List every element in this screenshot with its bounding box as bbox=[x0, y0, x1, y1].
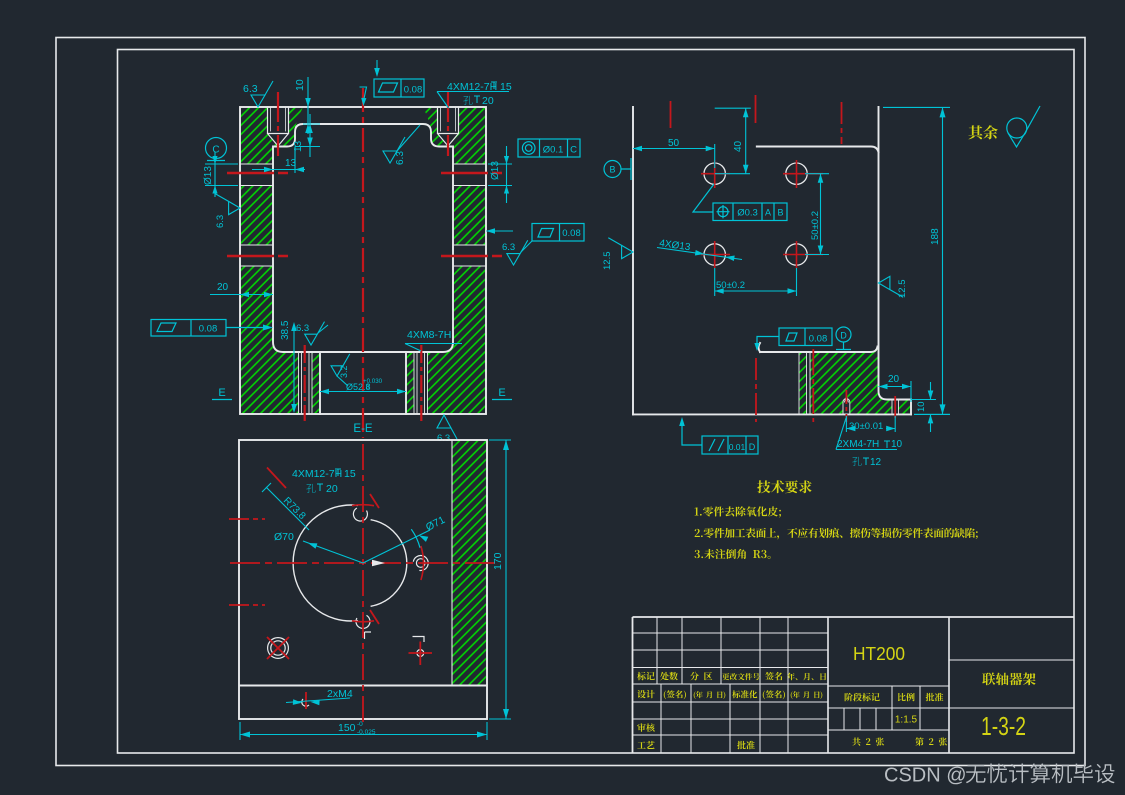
dim phi52.8 bbox=[320, 391, 406, 393]
bottom view wall line bbox=[451, 440, 453, 686]
left table verticals rows1-4 bbox=[657, 617, 788, 684]
tb qianming bbox=[765, 672, 782, 681]
svg-text:40: 40 bbox=[733, 140, 744, 152]
tech req line3 bbox=[694, 549, 770, 559]
bottom view hatch strip bbox=[452, 440, 487, 686]
label hole depth 20 bbox=[463, 96, 472, 105]
tb chushu bbox=[660, 672, 678, 681]
svg-text:50±0.2: 50±0.2 bbox=[716, 280, 745, 291]
small hole cross bbox=[409, 642, 433, 666]
right view base top edge y=352 bbox=[759, 343, 878, 352]
E-E left leg+base hatch bbox=[240, 266, 320, 414]
small hole bottom-right bbox=[417, 650, 424, 657]
svg-text:30±0.01: 30±0.01 bbox=[849, 421, 883, 432]
svg-text:C: C bbox=[212, 145, 219, 156]
svg-text:D: D bbox=[749, 442, 756, 452]
bottom view vertical centerline bbox=[362, 444, 364, 727]
right view step line y=146.5 bbox=[757, 147, 879, 153]
E-E right leg+base hatch bbox=[406, 266, 486, 414]
finish 6.3 top-left bbox=[251, 81, 273, 107]
datum B bbox=[604, 158, 631, 180]
svg-text:HT200: HT200 bbox=[853, 643, 905, 664]
tech req line2 bbox=[695, 528, 978, 540]
dim 10 right step height bbox=[911, 382, 950, 432]
right view bottom edge bbox=[633, 413, 911, 415]
svg-text:6.3: 6.3 bbox=[243, 83, 258, 95]
tb gong2zhang bbox=[852, 737, 884, 745]
svg-text:6.3: 6.3 bbox=[502, 242, 515, 253]
svg-text:2XM4-7H: 2XM4-7H bbox=[837, 439, 879, 450]
left table horizontals bbox=[633, 633, 829, 735]
svg-text:15: 15 bbox=[344, 468, 356, 480]
tb part name 联轴器架 bbox=[982, 673, 1035, 686]
tb di2zhang bbox=[915, 737, 947, 745]
margin tick centerlines bbox=[229, 519, 265, 605]
bottom view horizontal centerline bbox=[230, 562, 496, 564]
M12 top hole diagonal tick bbox=[370, 494, 379, 508]
M4 flange hole tick bbox=[305, 692, 307, 709]
finish 12.5 left bbox=[608, 238, 633, 259]
svg-text:B: B bbox=[777, 208, 783, 218]
svg-text:12.5: 12.5 bbox=[602, 252, 613, 271]
tb jieduanbiaoji bbox=[845, 693, 880, 701]
svg-text:0.08: 0.08 bbox=[199, 324, 218, 335]
tb sheji bbox=[637, 690, 655, 698]
finish 6.3 left leg bbox=[215, 194, 240, 215]
leader arrow to top face bbox=[376, 60, 378, 68]
datum C bbox=[206, 138, 227, 161]
right view section detail lines bbox=[799, 352, 899, 414]
svg-text:12.5: 12.5 bbox=[897, 280, 908, 299]
tb genggai bbox=[722, 673, 759, 680]
svg-text:6.3: 6.3 bbox=[395, 151, 406, 165]
leader box to surface bbox=[360, 87, 367, 100]
leader bbox=[437, 92, 509, 109]
corner bracket center-bottom bbox=[365, 632, 372, 639]
dim 50±0.2 vertical bbox=[805, 174, 829, 255]
dim 30±0.01 bbox=[846, 416, 895, 432]
right view top centerline segments bbox=[670, 101, 672, 128]
right view 4 holes phi13 bbox=[704, 163, 807, 265]
svg-text:0.08: 0.08 bbox=[809, 334, 828, 345]
tb pizhun row8 bbox=[737, 741, 755, 750]
tolerance box concentricity phi0.1 C bbox=[518, 139, 580, 157]
tb qianming2 bbox=[664, 690, 686, 699]
svg-text:170: 170 bbox=[492, 552, 504, 570]
svg-text:20: 20 bbox=[482, 95, 494, 107]
svg-text:Ø0.1: Ø0.1 bbox=[543, 145, 564, 156]
tb shenhe bbox=[637, 723, 655, 732]
E-E phi13 centerlines bbox=[227, 172, 503, 175]
right section lines bbox=[949, 660, 1074, 708]
right view section hatch bbox=[799, 344, 911, 414]
svg-text:-0: -0 bbox=[357, 721, 363, 728]
right view hole centerlines bbox=[701, 174, 823, 255]
svg-text:13: 13 bbox=[285, 158, 297, 169]
svg-text:13: 13 bbox=[293, 140, 304, 152]
title block grid bbox=[633, 617, 1075, 753]
svg-text:4XM8-7H: 4XM8-7H bbox=[407, 329, 451, 341]
svg-text:Ø13: Ø13 bbox=[203, 166, 214, 185]
svg-text:0.01: 0.01 bbox=[729, 442, 746, 452]
svg-text:D: D bbox=[840, 331, 847, 341]
dim 20 leg bbox=[210, 294, 273, 296]
finish 6.3 right leg bbox=[486, 231, 532, 253]
M4 hole bottom-left: double circle bbox=[271, 641, 285, 655]
middle section lines bbox=[828, 686, 949, 730]
dim 188 bbox=[883, 107, 950, 414]
M4 hole X bbox=[267, 637, 289, 659]
svg-text:0: 0 bbox=[366, 384, 370, 391]
tb biaoji bbox=[637, 672, 655, 680]
finish 12.5 right bbox=[879, 276, 904, 297]
tolerance box parallel 0.01 D bbox=[682, 420, 758, 454]
E-E left counterbore bbox=[268, 107, 289, 146]
tolerance box parallelism 0.08 top bbox=[374, 79, 424, 97]
svg-text:1:1.5: 1:1.5 bbox=[895, 715, 918, 726]
svg-text:Ø0.3: Ø0.3 bbox=[737, 208, 758, 219]
E-E M8 centerlines bbox=[305, 345, 422, 421]
svg-text:6.3: 6.3 bbox=[296, 323, 309, 334]
svg-text:A: A bbox=[765, 208, 771, 218]
right view bottom centerlines bbox=[755, 358, 757, 422]
M12 hole arc top bbox=[353, 508, 367, 521]
dim 50±0.2 horizontal bbox=[715, 268, 797, 296]
finish 3.2 bore bbox=[331, 354, 350, 376]
tolerance box parallelism 0.08 right bbox=[532, 224, 584, 242]
tb qianming3 bbox=[763, 690, 785, 699]
dim 38.5 bbox=[293, 325, 295, 411]
tb gongyi bbox=[637, 741, 654, 749]
svg-text:6.3: 6.3 bbox=[437, 433, 450, 444]
tb pizhun bbox=[926, 693, 944, 702]
svg-text:E-E: E-E bbox=[353, 423, 373, 435]
svg-text:50: 50 bbox=[668, 138, 680, 149]
M12 hole arc bottom bbox=[356, 615, 370, 628]
svg-text:3.2: 3.2 bbox=[339, 365, 349, 378]
E-E left leg hatch bbox=[240, 186, 273, 246]
leader tick 4XM12 bbox=[267, 468, 286, 489]
tiny arc on flange M4 bbox=[302, 699, 309, 706]
svg-text:188: 188 bbox=[930, 228, 941, 245]
tb nianyueri bbox=[787, 673, 826, 681]
E-E M8 holes thread lines bbox=[299, 352, 313, 414]
tb biaozhunhua bbox=[732, 690, 757, 698]
svg-text:4XM12-7H: 4XM12-7H bbox=[292, 468, 342, 480]
right view left edge bbox=[632, 107, 634, 414]
svg-text:6.3: 6.3 bbox=[215, 215, 226, 228]
dim 13 vertical bbox=[295, 114, 320, 157]
svg-text:38.5: 38.5 bbox=[280, 320, 291, 340]
bottom view flange line bbox=[239, 685, 487, 687]
dim R73.8 bbox=[262, 483, 309, 530]
tb fenqu bbox=[690, 672, 712, 681]
finish 6.3 cavity bbox=[383, 137, 405, 163]
svg-text:E: E bbox=[218, 387, 225, 399]
dim 20 step bbox=[879, 381, 912, 402]
E-E flange left hatch bbox=[240, 107, 486, 414]
svg-text:C: C bbox=[570, 145, 577, 156]
E-E phi13 band lines right bbox=[453, 164, 486, 266]
svg-text:CSDN @: CSDN @ bbox=[884, 765, 967, 787]
label 2XM4-7H depth10 bbox=[836, 418, 897, 450]
svg-text:-0.025: -0.025 bbox=[357, 729, 376, 736]
E-E flange right hatch bbox=[423, 107, 486, 164]
svg-text:0.08: 0.08 bbox=[404, 85, 423, 96]
svg-text:150: 150 bbox=[338, 722, 356, 734]
E-E counterbore centerlines bbox=[277, 92, 279, 156]
svg-text:12: 12 bbox=[870, 457, 882, 468]
bottom view phi70 boss arc (left half) bbox=[293, 505, 358, 621]
E-E cavity outline bbox=[273, 124, 453, 352]
svg-text:10: 10 bbox=[916, 401, 927, 412]
tb nianyueri3 bbox=[791, 691, 823, 699]
right view right profile bbox=[879, 107, 912, 414]
tolerance box position phi0.3 A B bbox=[693, 184, 787, 221]
svg-text:10: 10 bbox=[294, 79, 306, 91]
svg-text:B: B bbox=[609, 165, 615, 175]
tb nianyueri2 bbox=[694, 691, 726, 699]
svg-text:50±0.2: 50±0.2 bbox=[810, 211, 821, 240]
bottom view phi52.8 bore arc (right half) bbox=[371, 520, 407, 607]
svg-text:10: 10 bbox=[891, 439, 903, 450]
M12 hole right bbox=[416, 559, 425, 568]
tolerance box parallelism 0.08 left bbox=[151, 320, 263, 337]
E-E bore phi52.8 walls bbox=[320, 352, 406, 414]
left table verticals rows5-8 bbox=[661, 684, 788, 753]
E-E right leg hatch bbox=[453, 186, 486, 246]
finish 6.3 bottom edge bbox=[437, 415, 457, 439]
finish 6.3 floor bbox=[305, 322, 325, 345]
svg-text:20: 20 bbox=[326, 483, 338, 495]
tb bili bbox=[898, 693, 915, 701]
tech requirements title bbox=[757, 480, 811, 493]
inner border frame bbox=[118, 50, 1075, 754]
E-E outer outline bbox=[240, 107, 486, 414]
svg-text:1-3-2: 1-3-2 bbox=[981, 711, 1026, 741]
svg-text:20: 20 bbox=[888, 374, 900, 385]
svg-text:E: E bbox=[498, 387, 505, 399]
tech req line1 bbox=[695, 506, 781, 517]
E-E phi13 band lines left bbox=[240, 164, 273, 266]
dim 50 top bbox=[633, 144, 715, 168]
dim 13 step width bbox=[252, 147, 305, 174]
bolt circle arcs bbox=[352, 505, 374, 506]
tolerance box parallelism 0.08 + datum D bbox=[757, 327, 851, 350]
corner bracket right-bottom bbox=[413, 637, 425, 643]
dim 150 bbox=[240, 722, 487, 740]
E-E right counterbore bbox=[438, 107, 459, 146]
dim 170 bbox=[489, 440, 511, 719]
E-E vertical centerline bbox=[362, 88, 364, 438]
bottom view outline bbox=[239, 440, 487, 719]
svg-text:20: 20 bbox=[217, 282, 229, 293]
svg-text:Ø70: Ø70 bbox=[274, 531, 294, 543]
dim 10 flange thickness bbox=[307, 77, 309, 134]
qiyu text bbox=[969, 125, 998, 139]
svg-text:0.08: 0.08 bbox=[562, 228, 581, 239]
dim 40 bbox=[715, 108, 751, 174]
